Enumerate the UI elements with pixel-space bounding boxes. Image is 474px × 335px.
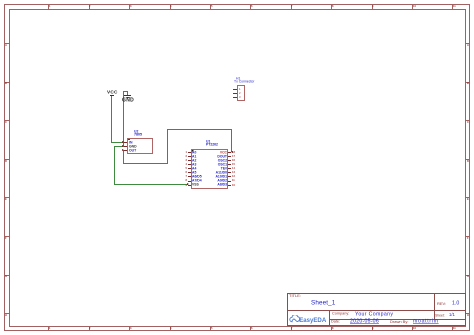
- wire: U2 OUT drop: [123, 150, 124, 164]
- title block sheet name Sheet_1: [311, 300, 335, 306]
- title block author moattrim: [413, 319, 439, 324]
- U1 pin 18 (VCC): [228, 152, 232, 153]
- wire: U2 GND pin leftward: [114, 146, 125, 147]
- U1 value label PT2262: [206, 143, 218, 146]
- wire: GND net vertical down left of U2: [114, 146, 115, 184]
- H1 pin 1: [233, 89, 237, 90]
- U1 pin 7 number label: [185, 175, 186, 178]
- power flag VCC: [107, 90, 118, 95]
- U1 pin 16 number label: [232, 159, 235, 162]
- U2 pin OUT: [124, 150, 127, 151]
- U1 pin 9 number label: [185, 184, 186, 187]
- wire: GND net vertical from ground hook down to U2 GND pin row: [123, 91, 124, 147]
- U2 pin IN: [124, 142, 127, 143]
- U1 pin 9 (VSS): [188, 185, 192, 186]
- U1 pin 12 number label: [232, 175, 235, 178]
- junction arrow at U2 OUT: [122, 149, 124, 151]
- title block Sheet label: [435, 314, 445, 317]
- title block Company label: [332, 312, 349, 316]
- U1 pin 3 number label: [185, 159, 186, 162]
- U1 pin 6 number label: [185, 171, 186, 174]
- U1 pin 4 (A3): [188, 164, 192, 165]
- ground symbol GND: [124, 94, 131, 97]
- title block: [287, 293, 466, 326]
- U2 value label 7805: [134, 133, 142, 137]
- wire: VCC flag vertical drop: [111, 96, 112, 143]
- U1 pin 4 number label: [185, 163, 186, 166]
- U1 pin 17 number label: [232, 155, 235, 158]
- U1 pin 17 (DOUT): [228, 156, 232, 157]
- H1 reference designator label: [236, 77, 240, 80]
- title block TITLE label: [289, 294, 301, 298]
- wire: VCC net horizontal into U2 IN: [111, 142, 125, 143]
- U2 pin-1 marker dot: [128, 139, 130, 141]
- U1 pin 18 number label: [232, 151, 235, 154]
- U1 pin 10 number label: [232, 184, 235, 187]
- U1 pin 2 (A1): [188, 156, 192, 157]
- regulator U2 body: [127, 138, 152, 154]
- U1 pin 1 (A0): [188, 152, 192, 153]
- encoder IC U1 body: [191, 149, 227, 189]
- wire: ground hook vertical into ground symbol: [127, 91, 128, 96]
- connector H1 body: [237, 85, 245, 101]
- U1 pin 8 number label: [185, 179, 186, 182]
- wire: GND net horizontal into U1 VSS: [114, 184, 189, 185]
- H1 pin 3: [233, 97, 237, 98]
- junction arrow at U2 IN: [122, 141, 124, 143]
- title block REV label: [437, 302, 446, 306]
- U1 pin 11 (A9/D2): [228, 181, 232, 182]
- junction arrow at U1 VSS pin: [187, 183, 189, 185]
- wire: drop into U1 pin 18 VCC: [231, 129, 232, 152]
- wire: OUT net top horizontal toward U1: [167, 129, 232, 130]
- U1 pin 15 (OSC1): [228, 164, 232, 165]
- wire: ground hook horizontal: [123, 91, 128, 92]
- svg-text:EasyEDA: EasyEDA: [299, 318, 327, 324]
- U1 pin 14 number label: [232, 167, 235, 170]
- wire: OUT net horizontal below U2: [123, 163, 167, 164]
- U1 pin 3 (A2): [188, 160, 192, 161]
- title block date 2020-05-06: [350, 319, 379, 324]
- junction arrow at U2 GND: [122, 145, 124, 147]
- title block revision 1.0: [452, 301, 459, 306]
- U1 pin 11 number label: [232, 179, 235, 182]
- title block Date label: [331, 320, 340, 324]
- title block Drawn By label: [390, 320, 408, 324]
- EasyEDA logo: [288, 315, 327, 324]
- U1 pin 2 number label: [185, 155, 186, 158]
- U1 reference designator label: [206, 140, 210, 143]
- U1 pin 7 (A6/D5): [188, 176, 192, 177]
- U2 reference designator label: [134, 130, 138, 133]
- junction arrow at U1 VCC pin 18: [231, 151, 233, 153]
- U1 pin 15 number label: [232, 163, 235, 166]
- U1 pin 13 (A11/D0): [228, 172, 232, 173]
- U1 pin 5 (A4): [188, 168, 192, 169]
- U1 pin 10 (A8/D3): [228, 185, 232, 186]
- title block sheet count 1/1: [449, 313, 455, 317]
- U2 pin GND: [124, 146, 127, 147]
- wire: OUT net vertical rise: [167, 129, 168, 164]
- H1 value label Tx Connector: [234, 80, 254, 83]
- U1 pin 13 number label: [232, 171, 235, 174]
- U1 pin 1 number label: [185, 151, 186, 154]
- U1 pin 6 (A5): [188, 172, 192, 173]
- U1 pin 8 (A7/D4): [188, 181, 192, 182]
- title block company name: [355, 312, 393, 317]
- U1 pin 5 number label: [185, 167, 186, 170]
- U1 pin 14 (TE#): [228, 168, 232, 169]
- U1 pin 16 (OSC2): [228, 160, 232, 161]
- U1 pin 12 (A10/D1): [228, 176, 232, 177]
- H1 pin 2: [233, 93, 237, 94]
- U1 pin-1 corner marker: [192, 150, 194, 152]
